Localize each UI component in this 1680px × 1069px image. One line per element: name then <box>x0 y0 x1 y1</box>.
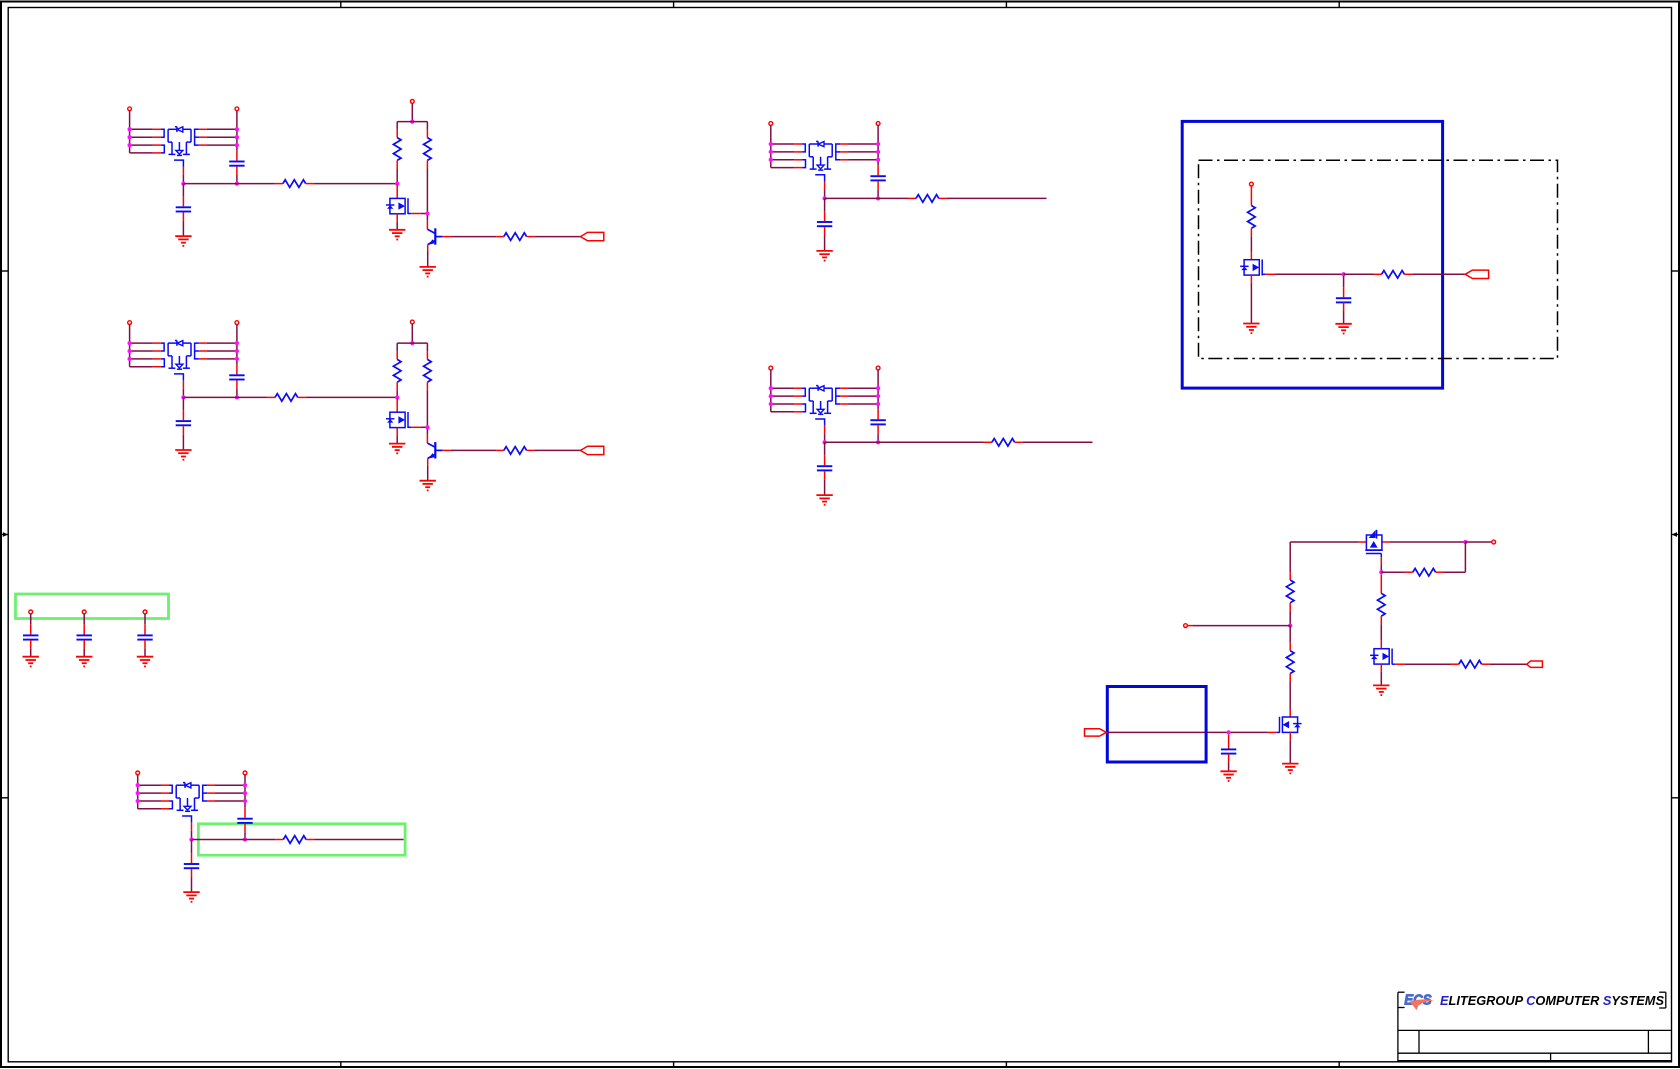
wire <box>83 614 85 625</box>
wire <box>138 784 161 786</box>
wire <box>182 221 184 236</box>
resistor R10 <box>984 439 1023 447</box>
junction <box>822 440 826 444</box>
junction <box>243 791 247 795</box>
wire <box>947 197 1047 199</box>
wire <box>244 808 246 818</box>
title block frame <box>1398 992 1672 1062</box>
wire <box>182 184 184 197</box>
junction <box>243 783 247 787</box>
wire <box>535 236 581 238</box>
wire <box>192 839 276 841</box>
rotated N-MOSFET Q11 <box>1359 530 1390 558</box>
output port P3 <box>1465 270 1488 278</box>
N-MOSFET Q5 <box>386 412 411 428</box>
junction <box>876 142 880 146</box>
junction <box>769 394 773 398</box>
N-MOSFET Q2 <box>386 198 411 214</box>
wire <box>824 198 826 211</box>
wire <box>771 167 794 169</box>
dual P-MOSFET Q9 <box>161 783 215 831</box>
resistor R11 <box>275 836 314 844</box>
junction <box>243 837 247 841</box>
wire <box>877 434 879 443</box>
ground <box>389 230 405 240</box>
wire <box>236 389 238 398</box>
wire <box>411 324 413 343</box>
wire <box>1343 302 1345 311</box>
capacitor C5 <box>870 176 885 180</box>
wire <box>877 165 879 175</box>
wire <box>451 236 497 238</box>
wire <box>144 614 146 625</box>
capacitor C14 <box>77 635 92 639</box>
wire <box>771 151 794 153</box>
wire <box>207 128 237 130</box>
capacitor C15 <box>137 635 152 639</box>
power port <box>769 122 773 126</box>
wire <box>1343 311 1345 323</box>
resistor R18 <box>1286 643 1294 682</box>
wire <box>244 824 246 832</box>
output port P1 <box>580 232 603 240</box>
wire <box>1380 557 1382 565</box>
resistor R6 <box>393 351 401 390</box>
junction <box>425 211 429 215</box>
wire <box>314 839 404 841</box>
wire <box>1412 273 1465 275</box>
junction <box>235 135 239 139</box>
wire <box>236 364 238 374</box>
wire <box>825 197 908 199</box>
svg-text:ELITEGROUP COMPUTER SYSTEMS: ELITEGROUP COMPUTER SYSTEMS <box>1440 993 1664 1008</box>
power port <box>128 107 132 111</box>
power port <box>876 122 880 126</box>
wire <box>215 792 245 794</box>
wire <box>411 426 421 428</box>
wire <box>1343 287 1345 297</box>
wire <box>396 168 398 183</box>
junction <box>136 799 140 803</box>
wire <box>427 465 429 480</box>
capacitor C7 <box>870 420 885 424</box>
junction <box>769 402 773 406</box>
power port <box>1184 624 1188 628</box>
capacitor C3 <box>229 375 244 379</box>
N-MOSFET Q12 <box>1370 649 1395 665</box>
wire <box>877 181 879 189</box>
junction <box>876 394 880 398</box>
junction <box>127 341 131 345</box>
wire <box>1187 625 1193 627</box>
N-MOSFET Q10 <box>1240 260 1265 276</box>
wire <box>130 342 153 344</box>
wire <box>130 358 153 360</box>
wire <box>1344 273 1374 275</box>
junction <box>235 127 239 131</box>
wire <box>396 185 398 199</box>
wire <box>138 808 161 810</box>
junction <box>235 341 239 345</box>
junction <box>136 783 140 787</box>
wire <box>1405 663 1451 665</box>
wire <box>877 190 879 199</box>
junction <box>1226 730 1230 734</box>
junction <box>127 357 131 361</box>
wire <box>877 370 879 409</box>
ground <box>816 495 832 505</box>
capacitor C10 <box>184 864 199 868</box>
junction <box>189 837 193 841</box>
junction <box>136 791 140 795</box>
wire <box>130 350 153 352</box>
wire <box>771 159 794 161</box>
power port <box>1250 182 1254 186</box>
wire <box>824 190 826 199</box>
junction <box>876 158 880 162</box>
wire <box>426 435 428 444</box>
wire <box>396 343 398 351</box>
wire <box>182 397 184 410</box>
wire <box>848 395 878 397</box>
dual P-MOSFET Q1 <box>153 127 207 175</box>
power port <box>136 771 140 775</box>
wire <box>83 640 85 649</box>
ground <box>420 267 436 277</box>
wire <box>1395 663 1404 665</box>
wire <box>191 869 193 877</box>
power port <box>128 321 132 325</box>
wire <box>771 411 794 413</box>
dashed region box <box>1199 160 1558 358</box>
junction <box>876 150 880 154</box>
junction <box>769 158 773 162</box>
NPN transistor Q6 <box>427 442 442 459</box>
junction <box>410 119 414 123</box>
wire <box>182 410 184 420</box>
junction <box>181 181 185 185</box>
junction <box>127 143 131 147</box>
wire <box>396 222 398 230</box>
wire <box>30 614 32 625</box>
junction <box>1463 540 1467 544</box>
wire <box>191 878 193 893</box>
wire <box>1380 664 1382 672</box>
power port <box>143 610 147 614</box>
wire <box>236 325 238 365</box>
capacitor C6 <box>817 222 832 226</box>
wire <box>306 396 397 398</box>
wire <box>1250 252 1252 260</box>
wire <box>207 350 237 352</box>
wire <box>144 624 146 635</box>
junction <box>769 150 773 154</box>
wire <box>83 624 85 635</box>
wire <box>182 175 184 184</box>
wire <box>83 649 85 657</box>
wire <box>130 152 153 154</box>
resistor R9 <box>908 195 947 203</box>
wire <box>426 221 428 230</box>
wire <box>182 212 184 220</box>
wire <box>236 380 238 388</box>
N-MOSFET Q13 <box>1276 717 1301 733</box>
wire <box>1289 626 1291 643</box>
capacitor C2 <box>176 207 191 211</box>
wire <box>771 403 794 405</box>
power port <box>243 771 247 775</box>
junction <box>235 395 239 399</box>
dual P-MOSFET Q8 <box>794 386 848 434</box>
wire <box>421 213 428 215</box>
wire <box>207 136 237 138</box>
wire <box>182 435 184 450</box>
wire <box>236 151 238 161</box>
wire <box>824 442 826 455</box>
wire <box>824 227 826 235</box>
resistor R7 <box>424 351 432 390</box>
wire <box>129 325 131 367</box>
junction <box>395 181 399 185</box>
junction <box>1288 623 1292 627</box>
wire <box>1289 710 1291 718</box>
wire <box>215 800 245 802</box>
wire <box>236 111 238 151</box>
junction <box>769 386 773 390</box>
resistor R17 <box>1286 572 1294 611</box>
ground <box>183 892 199 902</box>
wire <box>1228 762 1230 771</box>
output port P2 <box>580 446 603 454</box>
wire <box>144 649 146 657</box>
resistor R1 <box>275 180 314 188</box>
wire <box>1289 611 1291 626</box>
wire <box>770 370 772 412</box>
power port <box>235 321 239 325</box>
junction <box>127 349 131 353</box>
wire <box>396 428 398 436</box>
ground <box>816 251 832 261</box>
wire <box>443 236 451 238</box>
power port <box>410 320 414 324</box>
junction <box>876 440 880 444</box>
ground <box>1220 771 1236 781</box>
wire <box>130 144 153 146</box>
ground <box>1243 324 1259 334</box>
wire <box>397 342 427 344</box>
ground <box>76 657 92 667</box>
junction <box>876 386 880 390</box>
ground <box>137 657 153 667</box>
power port <box>769 366 773 370</box>
wire <box>824 480 826 495</box>
power port <box>410 100 414 104</box>
junction <box>425 425 429 429</box>
wire <box>1465 541 1491 543</box>
output port P4 <box>1527 661 1543 667</box>
capacitor C13 <box>23 635 38 639</box>
wire <box>426 216 428 221</box>
resistor R12 <box>1248 198 1256 237</box>
ground <box>389 444 405 454</box>
wire <box>191 853 193 863</box>
wire <box>1290 541 1358 543</box>
wire <box>443 449 451 451</box>
resistor R8 <box>496 447 534 455</box>
power port <box>876 366 880 370</box>
green highlight box <box>198 824 405 855</box>
power port <box>29 610 33 614</box>
wire <box>236 175 238 184</box>
wire <box>1250 186 1252 198</box>
dual P-MOSFET Q7 <box>794 141 848 189</box>
junction <box>235 181 239 185</box>
wire <box>427 252 429 267</box>
power port <box>82 610 86 614</box>
wire <box>771 395 794 397</box>
wire <box>30 649 32 657</box>
wire <box>215 784 245 786</box>
wire <box>825 441 984 443</box>
ground <box>23 657 39 667</box>
wire <box>30 624 32 635</box>
wire <box>1228 735 1230 749</box>
wire <box>129 111 131 153</box>
wire <box>182 389 184 398</box>
wire <box>1193 625 1290 627</box>
wire <box>771 387 794 389</box>
wire <box>1250 275 1252 283</box>
capacitor C11 <box>1336 298 1351 302</box>
wire <box>451 449 497 451</box>
junction <box>769 142 773 146</box>
wire <box>1228 754 1230 763</box>
wire <box>824 211 826 221</box>
wire <box>1289 732 1291 740</box>
wire <box>848 143 878 145</box>
wire <box>1490 663 1527 665</box>
ECS logo <box>1404 991 1434 1010</box>
wire <box>236 167 238 175</box>
wire <box>191 840 193 854</box>
resistor R15 <box>1378 574 1386 624</box>
wire <box>182 196 184 206</box>
wire <box>1289 682 1291 710</box>
dual P-MOSFET Q4 <box>153 341 207 389</box>
wire <box>877 409 879 419</box>
wire <box>1107 731 1268 733</box>
wire <box>130 136 153 138</box>
junction <box>235 143 239 147</box>
junction <box>243 799 247 803</box>
junction <box>1341 272 1345 276</box>
wire <box>1289 542 1291 572</box>
ground <box>420 481 436 491</box>
wire <box>824 471 826 479</box>
capacitor C1 <box>229 162 244 166</box>
wire <box>1023 441 1093 443</box>
wire <box>1265 273 1275 275</box>
wire <box>244 775 246 808</box>
wire <box>824 236 826 251</box>
wire <box>1464 542 1466 572</box>
power port <box>235 107 239 111</box>
wire <box>770 126 772 168</box>
wire <box>877 425 879 433</box>
junction <box>876 402 880 406</box>
wire <box>207 144 237 146</box>
junction <box>181 395 185 399</box>
wire <box>1380 672 1382 685</box>
wire <box>138 792 161 794</box>
wire <box>396 435 398 443</box>
wire <box>848 151 878 153</box>
wire <box>183 396 267 398</box>
wire <box>1390 541 1466 543</box>
junction <box>410 341 414 345</box>
wire <box>183 183 275 185</box>
NPN transistor Q3 <box>427 228 442 245</box>
wire <box>771 143 794 145</box>
blue function box <box>1182 121 1442 388</box>
wire <box>1380 640 1382 649</box>
wire <box>137 775 139 809</box>
wire <box>1380 624 1382 640</box>
wire <box>426 429 428 434</box>
input port P5 <box>1085 729 1107 736</box>
ground <box>1373 685 1389 695</box>
wire <box>426 122 428 130</box>
wire <box>535 449 581 451</box>
capacitor C4 <box>176 421 191 425</box>
wire <box>824 455 826 465</box>
wire <box>1250 236 1252 252</box>
junction <box>127 135 131 139</box>
border centre arrow left <box>1 532 8 537</box>
junction <box>127 127 131 131</box>
ground <box>1282 764 1298 774</box>
wire <box>427 459 429 466</box>
wire <box>144 640 146 649</box>
wire <box>1380 566 1382 573</box>
resistor R14 <box>1405 568 1444 576</box>
wire <box>182 426 184 434</box>
junction <box>395 395 399 399</box>
wire <box>1267 731 1276 733</box>
junction <box>822 196 826 200</box>
wire <box>877 126 879 166</box>
ground <box>175 450 191 460</box>
wire <box>1275 273 1344 275</box>
wire <box>396 398 398 412</box>
resistor R2 <box>393 130 401 169</box>
capacitor C12 <box>1221 749 1236 753</box>
wire <box>411 103 413 121</box>
wire <box>426 343 428 351</box>
wire <box>848 403 878 405</box>
wire <box>426 390 428 427</box>
wire <box>244 832 246 839</box>
wire <box>411 213 421 215</box>
power port <box>1492 540 1496 544</box>
wire <box>397 121 427 123</box>
junction <box>1379 570 1383 574</box>
wire <box>314 183 398 185</box>
wire <box>396 122 398 130</box>
wire <box>30 640 32 649</box>
wire <box>1381 571 1405 573</box>
wire <box>421 426 428 428</box>
